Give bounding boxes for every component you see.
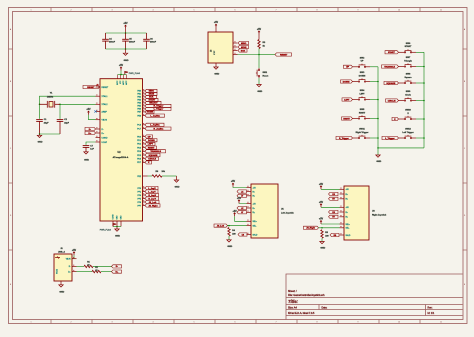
MCU right pin names PB/PE — [137, 91, 142, 118]
MCU U2 ATmega32U4-A body — [100, 79, 143, 221]
net label SELECT — [145, 101, 161, 104]
svg-text:XTAL1: XTAL1 — [102, 95, 109, 98]
svg-text:LEFT: LEFT — [344, 99, 350, 101]
wire — [413, 51, 416, 53]
switch SW12 Left Trigger — [403, 135, 413, 139]
wire XTAL1 — [40, 96, 96, 119]
svg-text:5: 5 — [194, 321, 195, 323]
svg-text:GND: GND — [84, 160, 89, 162]
svg-text:UGND: UGND — [112, 214, 114, 220]
svg-text:PB3: PB3 — [137, 100, 141, 102]
net label TRIANGLE — [145, 150, 166, 153]
net label CIRCLE — [145, 157, 159, 160]
junction — [321, 227, 323, 229]
ground (SW1) — [257, 85, 261, 87]
svg-text:Rx: Rx — [253, 208, 255, 210]
svg-text:Left Joystick: Left Joystick — [281, 211, 295, 214]
svg-text:GND: GND — [59, 291, 64, 293]
svg-text:GND: GND — [124, 60, 129, 62]
switch SW8 Square — [403, 80, 413, 84]
net label RIGHT (button) — [342, 117, 353, 120]
MCU top pin names — [117, 80, 128, 85]
net label L_Trigger — [145, 107, 171, 110]
net label R_Jy2 — [329, 215, 339, 218]
svg-text:4: 4 — [153, 9, 154, 11]
USB connector J1 body — [54, 254, 72, 281]
svg-text:START: START — [405, 45, 412, 48]
no-connect cross AREF — [94, 110, 96, 112]
wire — [399, 118, 404, 120]
svg-text:4: 4 — [153, 321, 154, 323]
svg-text:L_JoyY: L_JoyY — [148, 191, 156, 193]
svg-text:PWR_FLAG: PWR_FLAG — [129, 72, 141, 75]
svg-text:L_JoyX: L_JoyX — [148, 188, 156, 190]
svg-text:6: 6 — [235, 321, 236, 323]
svg-text:SEL+: SEL+ — [346, 224, 350, 226]
switch SW3 DOWN — [357, 78, 367, 82]
svg-text:DOWN: DOWN — [343, 81, 350, 83]
ground (R6) — [176, 176, 178, 180]
svg-text:+5V: +5V — [257, 29, 262, 31]
svg-text:Ry: Ry — [346, 217, 348, 219]
net label L_Btn — [238, 233, 247, 236]
net label D- (MCU) — [85, 127, 96, 130]
svg-text:Rev:: Rev: — [428, 306, 433, 309]
switch SW7 Triangle — [403, 63, 413, 67]
wire — [113, 226, 121, 228]
ground (U3) — [320, 242, 324, 244]
switch SW1 Reset — [256, 68, 260, 78]
net label RIGHT — [145, 146, 157, 149]
svg-text:Rx: Rx — [346, 194, 348, 196]
svg-text:22pF: 22pF — [64, 122, 69, 124]
svg-text:D+: D+ — [68, 271, 70, 273]
svg-text:USB_A: USB_A — [58, 250, 66, 253]
resistor R5 — [321, 230, 323, 239]
power +5V (cap bank) — [125, 25, 127, 29]
svg-text:GND: GND — [257, 91, 262, 93]
svg-text:Left Trigger: Left Trigger — [402, 131, 413, 134]
svg-text:JS_Left: JS_Left — [149, 201, 157, 204]
svg-text:R_Trigger: R_Trigger — [339, 137, 349, 140]
svg-text:+5V: +5V — [319, 202, 324, 204]
wire — [367, 137, 370, 139]
svg-text:13: 13 — [97, 85, 99, 87]
svg-text:2: 2 — [71, 9, 72, 11]
switch SW10 X — [403, 116, 413, 120]
wire (right button bus) — [423, 52, 425, 148]
wire — [89, 115, 96, 120]
MCU right pin numbers PC — [143, 123, 144, 128]
svg-text:8: 8 — [317, 9, 318, 11]
svg-text:PC6: PC6 — [137, 125, 141, 127]
joystick U3 pin numbers — [340, 188, 341, 235]
title block — [286, 274, 463, 320]
wire — [258, 35, 260, 40]
svg-text:PE6: PE6 — [137, 115, 141, 117]
junction — [39, 104, 41, 106]
svg-text:PD1: PD1 — [137, 140, 141, 142]
svg-text:ICSP: ICSP — [214, 50, 216, 55]
junction — [377, 147, 379, 149]
resistor R4 — [228, 228, 230, 237]
switch SW11 Right Trigger — [357, 135, 367, 139]
svg-text:START: START — [388, 51, 396, 54]
svg-text:+5V: +5V — [72, 250, 77, 252]
svg-text:L_JoyBtn: L_JoyBtn — [150, 114, 160, 117]
ground (ICSP) — [214, 67, 218, 69]
MCU left pin numbers — [96, 85, 97, 141]
svg-text:D-: D- — [102, 129, 104, 131]
wire — [77, 265, 85, 267]
svg-text:ATmega32U4-A: ATmega32U4-A — [113, 156, 129, 159]
svg-text:D-: D- — [116, 266, 119, 268]
svg-text:Square: Square — [405, 76, 413, 79]
net label D+ (MCU) — [85, 131, 96, 134]
power flag PWR_FLAG (MCU bottom) — [113, 223, 116, 226]
power +5V (reset) — [258, 31, 260, 35]
svg-text:R_JoyX: R_JoyX — [148, 195, 156, 197]
net label MOSI — [238, 45, 249, 48]
svg-text:SHLD: SHLD — [253, 234, 258, 236]
MCU bottom pin names — [112, 214, 122, 220]
svg-text:File: GameControllerJoystick.s: File: GameControllerJoystick.sch — [288, 294, 325, 297]
MCU left pin stubs — [96, 87, 101, 142]
svg-text:JS_Right: JS_Right — [306, 227, 315, 230]
switch SW2 UP — [357, 64, 367, 68]
MCU right pin numbers PD — [143, 135, 144, 162]
svg-text:SW12: SW12 — [405, 129, 411, 131]
svg-text:PB7: PB7 — [137, 112, 141, 114]
capacitor C4 — [105, 33, 107, 39]
svg-text:DOWN: DOWN — [359, 75, 366, 77]
svg-text:SHLD: SHLD — [346, 235, 351, 237]
svg-text:GND: GND — [38, 142, 43, 144]
svg-text:Reset: Reset — [263, 75, 269, 78]
wire — [228, 236, 230, 240]
net label JS_Right — [304, 226, 319, 229]
wire — [93, 265, 112, 267]
svg-text:RESET: RESET — [102, 87, 109, 89]
power +5V (U1 group2) — [238, 200, 240, 204]
wire — [59, 104, 61, 119]
svg-text:MOSI: MOSI — [241, 47, 247, 49]
wire — [228, 225, 247, 227]
svg-text:16MHz: 16MHz — [47, 97, 53, 99]
MCU pin HWB stub — [143, 175, 148, 177]
svg-text:PD2: PD2 — [137, 144, 141, 146]
switch SW6 START — [403, 49, 413, 53]
MCU top power pins UVCC VCC AVCC — [118, 75, 127, 79]
svg-text:L_JoyBtn: L_JoyBtn — [150, 124, 160, 127]
ground (USB shield) — [59, 285, 63, 287]
svg-text:GND: GND — [175, 187, 180, 189]
net label CIRCLE (button) — [386, 99, 399, 102]
svg-text:6: 6 — [235, 9, 236, 11]
MCU right pin stubs PF — [143, 188, 146, 206]
MCU right pin names PD — [137, 136, 142, 164]
wire — [162, 175, 177, 177]
net label MISO — [145, 89, 157, 92]
net label L_JoyBtn — [145, 123, 164, 126]
joystick U1 pin numbers — [247, 186, 248, 234]
net label L_JoyBtn — [145, 114, 165, 117]
svg-text:VBUS: VBUS — [66, 259, 72, 261]
net label SCK — [238, 49, 247, 52]
wire — [258, 49, 260, 55]
svg-text:PD5: PD5 — [137, 155, 141, 157]
net label HOME — [145, 110, 154, 113]
USB icon — [55, 256, 60, 259]
net label R_JoyY — [145, 197, 159, 200]
junction — [125, 48, 127, 50]
svg-text:PF7: PF7 — [137, 205, 141, 207]
wire — [106, 48, 147, 50]
svg-text:RESET: RESET — [280, 54, 288, 56]
svg-text:Date:: Date: — [322, 306, 328, 309]
wire — [353, 99, 358, 101]
svg-text:RIGHT: RIGHT — [148, 147, 155, 149]
svg-text:Triangle: Triangle — [404, 59, 413, 62]
USB pin numbers — [73, 257, 74, 271]
svg-text:PF0: PF0 — [137, 188, 141, 190]
svg-text:PD3: PD3 — [137, 147, 141, 149]
wire — [120, 71, 122, 75]
svg-text:L_Trigger: L_Trigger — [154, 108, 164, 111]
junction — [125, 32, 127, 34]
svg-text:8: 8 — [317, 321, 318, 323]
svg-text:11: 11 — [440, 9, 442, 11]
ground (UCAP) — [84, 152, 88, 154]
wire — [367, 99, 370, 101]
net label D- (USB) — [112, 265, 122, 268]
MCU left pin names — [102, 87, 109, 144]
net label LEFT (button) — [342, 98, 353, 101]
svg-text:PD6: PD6 — [137, 159, 141, 161]
net label X (button) — [392, 117, 399, 120]
net label R_Btn — [330, 233, 339, 236]
svg-text:GND: GND — [214, 74, 219, 76]
wire — [215, 28, 217, 32]
wire — [399, 137, 404, 139]
MCU right pin names PF — [137, 188, 141, 208]
resistor R3 — [258, 40, 260, 49]
svg-text:PB0: PB0 — [137, 91, 141, 93]
svg-text:PE2: PE2 — [137, 176, 141, 178]
svg-text:3: 3 — [112, 9, 113, 11]
svg-text:VBUS: VBUS — [102, 120, 108, 122]
svg-text:2: 2 — [71, 321, 72, 323]
svg-text:KiCad E.D.A. kicad 7.0.5: KiCad E.D.A. kicad 7.0.5 — [288, 312, 315, 315]
USB pin names — [66, 259, 72, 274]
wire — [86, 142, 96, 145]
net label L_JoyX — [237, 190, 247, 193]
power +5V (U3 group1) — [320, 186, 322, 190]
net label L_Trigger (button) — [382, 136, 399, 139]
resistor R6 — [152, 175, 162, 177]
power +5V (U1 group1) — [232, 183, 234, 187]
svg-text:SCK: SCK — [241, 50, 246, 52]
ICSP pin numbers — [234, 41, 235, 53]
junction — [116, 226, 118, 228]
svg-text:SEL-: SEL- — [346, 228, 350, 230]
svg-text:Title:: Title: — [288, 299, 299, 304]
net label UP — [145, 135, 153, 138]
ground (U1) — [227, 240, 231, 242]
svg-text:11: 11 — [440, 321, 442, 323]
capacitor C7 — [83, 146, 90, 148]
net label RESET (reset circuit) — [275, 53, 292, 56]
wire — [40, 133, 61, 135]
svg-text:R_JoyY: R_JoyY — [148, 198, 156, 200]
joystick U3 pin stubs — [340, 189, 345, 235]
svg-text:TRIANGLE: TRIANGLE — [384, 65, 395, 68]
svg-text:5: 5 — [194, 9, 195, 11]
junction — [120, 74, 122, 76]
net label R_Jx2 — [329, 210, 339, 213]
svg-text:RIGHT: RIGHT — [343, 118, 350, 120]
resistor R1 — [84, 265, 93, 267]
capacitor C1 — [36, 120, 43, 122]
junction — [39, 133, 41, 135]
svg-text:100nF: 100nF — [129, 42, 136, 44]
svg-text:+5V: +5V — [123, 23, 128, 25]
net label R_Trigger — [145, 104, 171, 107]
net label MOSI — [145, 92, 157, 95]
ground (buttons) — [377, 148, 379, 155]
junction — [228, 225, 230, 227]
wire — [101, 271, 112, 273]
power flag PWR_FLAG (MCU top) — [125, 71, 128, 74]
power +5V (VBUS) — [88, 111, 90, 115]
net label L_Jx2 — [237, 206, 247, 209]
svg-text:9: 9 — [358, 9, 359, 11]
svg-text:PB2: PB2 — [137, 97, 141, 99]
joystick U3 pin names — [346, 189, 351, 237]
svg-text:CIRCLE: CIRCLE — [388, 100, 396, 102]
net label X — [145, 161, 152, 164]
wire — [353, 81, 358, 83]
svg-text:Size: A4: Size: A4 — [288, 306, 297, 309]
svg-text:+5V: +5V — [233, 211, 238, 213]
svg-text:UCAP: UCAP — [102, 141, 108, 144]
wire — [106, 32, 147, 34]
wire — [353, 66, 358, 68]
power +5V (U3 group2) — [320, 204, 322, 208]
net label LEFT — [145, 142, 155, 145]
wire (ICSP RST to reset node) — [238, 54, 260, 56]
net label START (button) — [385, 51, 399, 54]
svg-text:UGND: UGND — [102, 137, 108, 139]
wire — [399, 66, 404, 68]
net label L_JoyY — [237, 194, 247, 197]
net label START — [145, 98, 158, 101]
MCU right pin stubs PD — [143, 137, 146, 163]
svg-text:100nF: 100nF — [150, 42, 157, 44]
joystick U1 pin stubs — [247, 188, 252, 235]
crystal Y1 — [40, 101, 61, 108]
svg-text:SEL-: SEL- — [253, 225, 257, 227]
net label R_JoyX — [145, 193, 159, 196]
svg-text:Circle: Circle — [405, 93, 412, 96]
wire (left button bus) — [377, 67, 379, 148]
wire — [118, 74, 127, 76]
svg-text:PF5: PF5 — [137, 198, 141, 200]
MCU right pin stubs PB/PE — [143, 91, 146, 116]
svg-text:JS_Left: JS_Left — [217, 224, 225, 227]
power +5V (ICSP) — [215, 24, 217, 28]
wire — [399, 82, 404, 84]
svg-text:PB6: PB6 — [137, 109, 141, 111]
svg-text:R_JoyBtn: R_JoyBtn — [154, 127, 164, 130]
wire XTAL2 — [58, 103, 95, 105]
svg-text:+5V: +5V — [319, 184, 324, 186]
svg-text:+5V: +5V — [319, 219, 324, 221]
svg-text:3: 3 — [112, 321, 113, 323]
USB pin stubs — [61, 259, 77, 285]
svg-text:D-: D- — [89, 129, 92, 131]
net label MISO — [238, 41, 249, 44]
wire — [319, 227, 340, 229]
svg-text:Rx: Rx — [346, 212, 348, 214]
resistor R2 — [92, 270, 101, 272]
wire — [399, 100, 404, 102]
net label SQUARE (button) — [384, 81, 399, 84]
MCU bottom pin stubs UGND GND GND — [113, 221, 121, 227]
net label D+ (USB) — [112, 270, 122, 273]
MCU right pin names PC — [137, 125, 141, 131]
wire — [258, 78, 260, 85]
wire — [125, 29, 127, 33]
switch SW9 Circle — [403, 97, 413, 101]
svg-text:10: 10 — [398, 321, 400, 323]
svg-text:XTAL2: XTAL2 — [102, 103, 109, 106]
svg-text:MISO: MISO — [241, 43, 247, 45]
power +5V (USB) — [73, 252, 75, 256]
net label L_JoyY — [145, 190, 158, 193]
wire — [413, 118, 416, 120]
capacitor C5 — [125, 33, 127, 39]
ground (cap bank) — [125, 49, 127, 53]
svg-text:JS_Right: JS_Right — [148, 204, 157, 207]
MCU right pin numbers PF — [143, 186, 144, 204]
svg-text:PC7: PC7 — [137, 128, 141, 130]
switch SW4 LEFT — [357, 96, 367, 100]
svg-text:CIRCLE: CIRCLE — [148, 159, 156, 161]
svg-text:Ry: Ry — [253, 196, 255, 198]
svg-text:Shield: Shield — [56, 269, 58, 274]
net label SCK — [145, 95, 157, 98]
svg-text:SQUARE: SQUARE — [148, 154, 158, 157]
svg-text:Sheet: /: Sheet: / — [288, 290, 297, 293]
wire — [367, 81, 370, 83]
ICSP header J2 body — [208, 32, 233, 63]
svg-text:SQUARE: SQUARE — [386, 82, 396, 85]
joystick U1 pin names — [253, 187, 258, 236]
svg-text:PD7: PD7 — [137, 162, 141, 164]
svg-text:LEFT: LEFT — [359, 93, 365, 95]
svg-text:PB5: PB5 — [137, 106, 141, 108]
net label R_Trigger (button) — [336, 136, 353, 139]
wire — [72, 255, 74, 258]
net label JS_Left — [145, 200, 159, 203]
ICSP pin stubs — [216, 43, 238, 67]
wire — [367, 66, 370, 68]
net label RESET (MCU) — [83, 85, 100, 88]
wire — [353, 137, 358, 139]
wire — [413, 100, 416, 102]
svg-text:Id: 1/1: Id: 1/1 — [428, 312, 435, 315]
